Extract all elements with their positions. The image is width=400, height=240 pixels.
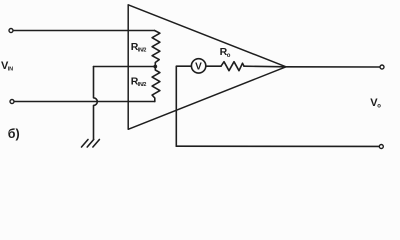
resistor RIN/2 lower [152, 67, 160, 102]
op-amp U1 (amplifier triangle) [128, 5, 286, 130]
svg-text:o: o [377, 103, 381, 109]
ground [82, 140, 100, 148]
terminal input + [9, 29, 13, 33]
dependent source V (voltmeter circle) [191, 59, 205, 73]
terminal output + [380, 65, 384, 69]
wire ground vertical with hop over bottom input wire [94, 67, 98, 140]
svg-text:IN/2: IN/2 [138, 48, 147, 54]
wire bottom return [176, 145, 379, 147]
wire source left to feedback corner [176, 66, 191, 146]
svg-text:IN: IN [8, 67, 13, 73]
wire midpoint to ground branch [94, 66, 156, 68]
wire RO to output terminal [244, 65, 380, 68]
svg-text:V: V [195, 62, 202, 73]
wire bottom input [14, 101, 155, 103]
resistor RIN/2 upper [152, 31, 160, 67]
svg-text:o: o [227, 53, 231, 59]
svg-text:б): б) [8, 127, 20, 141]
resistor RO [221, 62, 244, 71]
svg-text:IN/2: IN/2 [138, 82, 147, 88]
wire top input [13, 30, 154, 32]
terminal input - [10, 100, 14, 104]
terminal output - [379, 145, 383, 149]
node midpoint junction dot [153, 65, 157, 69]
wire source right to RO [206, 65, 221, 67]
